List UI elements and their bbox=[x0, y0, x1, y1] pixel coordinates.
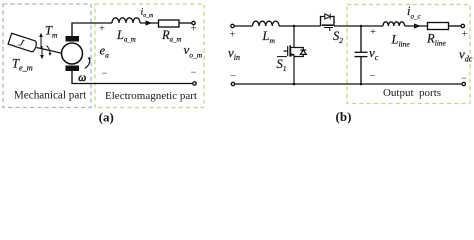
svg-text:+: + bbox=[462, 29, 468, 40]
svg-text:Output ports: Output ports bbox=[383, 87, 441, 99]
svg-text:(b): (b) bbox=[336, 109, 352, 124]
svg-text:−: − bbox=[370, 71, 376, 82]
svg-text:ω: ω bbox=[78, 72, 86, 84]
svg-text:+: + bbox=[230, 30, 236, 41]
svg-text:Mechanical part: Mechanical part bbox=[14, 90, 87, 102]
svg-text:(a): (a) bbox=[99, 110, 114, 125]
svg-text:−: − bbox=[230, 71, 236, 82]
svg-text:−: − bbox=[102, 69, 108, 80]
svg-text:−: − bbox=[461, 74, 467, 85]
svg-text:+: + bbox=[370, 27, 376, 38]
svg-text:Electromagnetic part: Electromagnetic part bbox=[105, 90, 197, 102]
svg-text:+: + bbox=[99, 24, 105, 35]
svg-text:−: − bbox=[191, 68, 197, 79]
svg-text:+: + bbox=[191, 24, 197, 35]
